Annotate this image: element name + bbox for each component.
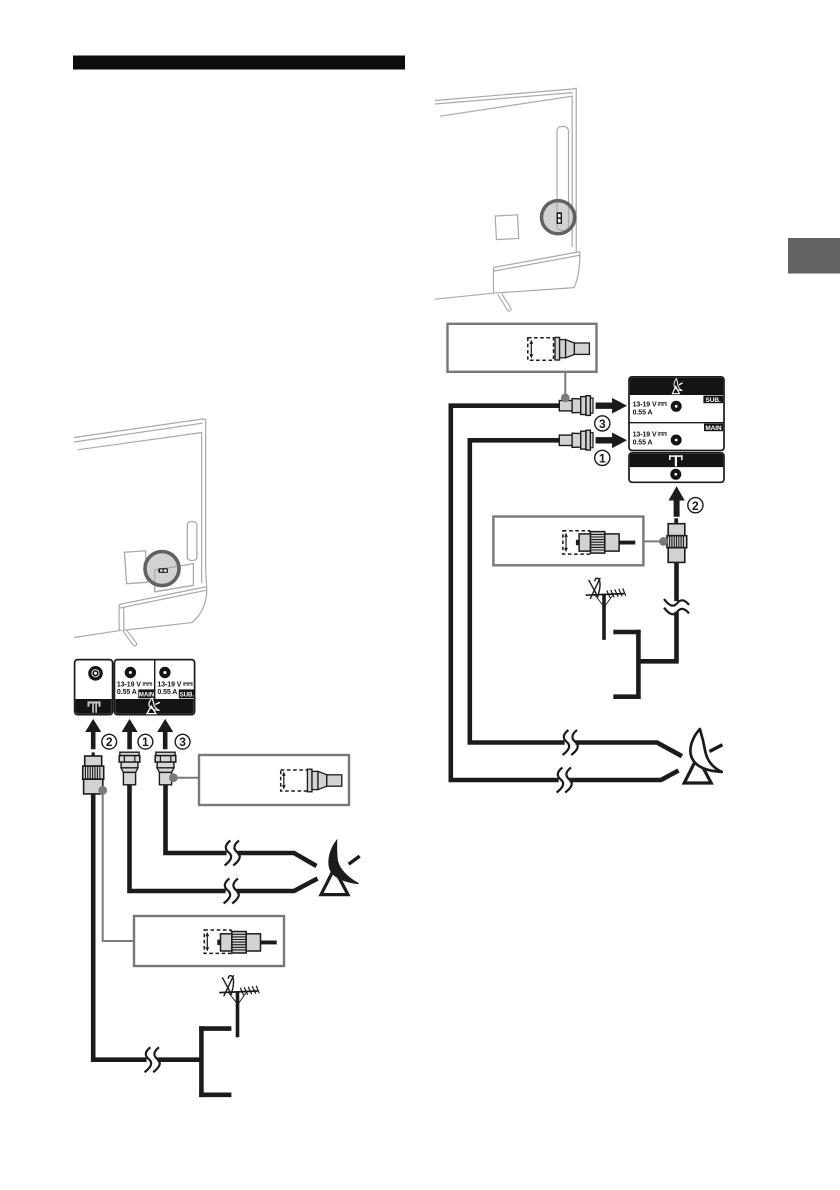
svg-text:0.55 A: 0.55 A [117,689,137,696]
coax plug icon in note box 4 [576,532,635,554]
coax plug icon in note box 2 [217,932,276,954]
cable break on cable 1 [224,879,239,904]
TV rear view (right diagram) [435,88,576,299]
svg-text:1: 1 [599,452,606,466]
speaker bar (left TV) [119,587,207,631]
terminal cover slot (left TV) [187,522,197,561]
satellite jack MAIN (left panel) [125,667,136,678]
F-type plug 1r (horizontal) [559,430,593,450]
cable from F plug 3 to satellite dish (upper) [166,779,317,866]
dashed depth rectangle in note box 3 [528,338,554,361]
antenna terminals icon in magnifier (left TV) [158,568,168,573]
label 13-19V 0.55A SUB (right panel) [633,402,657,417]
satellite input box (left panel) [114,660,194,715]
svg-text:2: 2 [692,499,699,513]
antenna input box (right panel) [629,453,724,482]
label 13-19V 0.55A MAIN (left panel) [117,682,141,697]
satellite dish (left diagram) [321,841,360,895]
coax cable note box (right diagram) [493,517,643,566]
coax jack (right panel antenna box) [670,469,681,480]
heading bar (redacted title) [73,56,405,70]
antenna symbol (right panel) [669,455,683,466]
magnifier ring (left TV) [145,552,179,586]
terrestrial antenna (left diagram) [219,975,259,1037]
height arrow in note box 4 [565,536,567,549]
cable break on antenna cable [145,1047,160,1072]
cable from F plug 3r to satellite dish (lower) [451,406,679,780]
gray callout dot on plug 3r [561,394,570,403]
cable from coax plug 2 to antenna bracket [93,790,199,1060]
height arrow in note box 2 [206,935,208,948]
wall bracket (right diagram) [613,630,640,699]
dashed depth rectangle in note box 4 [563,531,590,554]
antenna input box (left panel) [75,660,113,715]
coax jack (left panel antenna box) [88,666,103,681]
svg-text:0.55 A: 0.55 A [157,689,177,696]
svg-text:13-19 V: 13-19 V [633,432,657,439]
svg-text:MAIN: MAIN [705,425,722,432]
step number 1 circle (right) [595,450,610,465]
antenna symbol (left panel) [88,701,101,712]
gray leader line from note box 3 to plug 3r [564,372,566,398]
gray leader line from plug 2 to coax cable note box [103,790,134,941]
cable break on cable 3 [225,841,240,866]
svg-text:0.55 A: 0.55 A [633,409,653,416]
step number 3 circle (left) [175,734,190,749]
TV rear view (left diagram) [74,419,207,638]
cable from F plug 1 to satellite dish (lower) [130,779,318,891]
dashed depth rectangle in note box 1 [281,770,309,791]
MAIN tag (right panel) [704,424,723,432]
svg-text:SUB.: SUB. [180,691,195,698]
svg-text:3: 3 [599,417,606,431]
step number 3 circle (right) [595,416,610,431]
SUB tag (right panel) [703,396,723,404]
cable break on right cable 1 [563,730,578,755]
satellite jack SUB (left panel) [159,667,170,678]
satellite jack MAIN (right panel) [671,435,682,446]
arrow 3 (up, into SUB jack) [157,719,173,749]
step number 1 circle (left) [138,734,153,749]
cable break on right antenna cable [664,599,689,614]
gray callout dot on plug 2r [659,537,668,546]
stand leg (left TV) [123,630,137,646]
DC symbol SUB (right panel) [658,403,667,405]
gray leader line from plug 3 to F connector note box [173,777,199,779]
F connector note box (left diagram) [199,755,349,805]
coax cable note box (left diagram) [134,916,284,966]
arrow 2r (up, into antenna box) [669,486,685,517]
magnifier circle fill (left TV) [145,552,179,586]
satellite dish icon in black band (right panel) [672,379,682,394]
height arrow in note box 1 [283,775,285,787]
step number 2 circle (left) [102,734,117,749]
MAIN tag (left panel) [138,689,155,698]
satellite terminals icon in magnifier (right TV) [557,212,562,224]
F-type plug 1 (vertical) [119,752,140,785]
coax antenna plug 2 (vertical) [83,752,104,794]
DC symbol SUB (left panel) [183,683,193,685]
speaker bar (right TV) [494,252,580,294]
svg-text:13-19 V: 13-19 V [633,402,657,409]
satellite dish icon in black band (left panel) [147,698,160,714]
satellite jack SUB (right panel) [671,401,682,412]
terminal recess rectangle (left TV) [155,564,194,592]
F-type plug 3 (vertical) [155,752,176,785]
arrow 2 (up, into antenna box) [85,719,101,749]
svg-text:3: 3 [179,735,186,749]
magnifier circle fill (right TV) [542,201,575,234]
arrow 1r (right, into MAIN jack) [596,433,627,449]
magnifier ring (right TV) [542,201,575,234]
svg-text:SUB.: SUB. [706,397,721,404]
svg-text:MAIN: MAIN [139,691,155,698]
height arrow in note box 3 [530,343,532,356]
label 13-19V 0.55A MAIN (right panel) [633,432,657,447]
dashed depth rectangle in note box 2 [204,930,231,953]
svg-text:2: 2 [106,735,113,749]
coax antenna plug 2r (vertical) [667,518,687,562]
satellite input box (right panel) [629,377,724,451]
step number 2 circle (right) [688,498,703,513]
label 13-19V 0.55A SUB (left panel) [157,682,181,697]
page side tab [788,238,840,274]
terrestrial antenna (right diagram) [586,578,626,640]
rating label square (left TV) [124,551,147,584]
svg-text:13-19 V: 13-19 V [157,682,181,689]
gray leader line from plug 2r to coax cable note box [644,540,664,542]
satellite dish (right diagram) [684,729,722,783]
svg-text:13-19 V: 13-19 V [117,682,141,689]
F connector note box (right diagram) [448,324,597,372]
F-type plug 3r (horizontal) [559,396,593,416]
stand leg (right TV) [498,294,511,311]
F connector icon in note box 1 [307,769,341,792]
DC symbol MAIN (right panel) [658,433,667,435]
cable break on right cable 3 [557,768,572,793]
cable from coax plug 2r to wall bracket [640,560,677,661]
SUB tag (left panel) [179,689,195,698]
terminal cover slot (right TV) [557,127,569,231]
arrow 3r (right, into SUB jack) [596,398,627,414]
gray callout dot on plug 2 [98,786,107,795]
DC symbol MAIN (left panel) [143,683,153,685]
cable from F plug 1r to satellite dish (upper) [470,440,682,756]
wall bracket (left diagram) [199,1026,231,1097]
svg-text:0.55 A: 0.55 A [633,439,653,446]
arrow 1 (up, into MAIN jack) [122,719,138,749]
rating label square (right TV) [495,215,519,240]
F connector icon in note box 3 [555,337,589,360]
gray callout dot on plug 3 [169,773,178,782]
svg-text:1: 1 [142,735,149,749]
